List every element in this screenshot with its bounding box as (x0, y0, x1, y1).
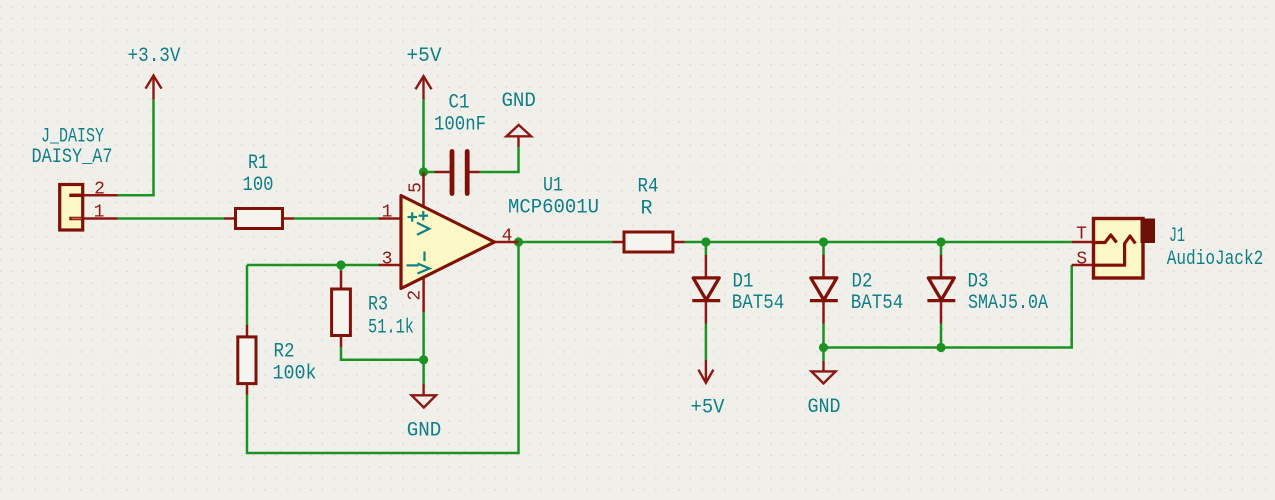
wire: R1 to op-amp pin1 (294, 217, 379, 220)
junction op-amp output (514, 237, 523, 246)
power +5V symbol top (416, 76, 432, 99)
op-amp minus input marker (407, 264, 419, 266)
svg-text:R1: R1 (248, 152, 268, 175)
svg-text:5: 5 (407, 182, 427, 193)
svg-text:GND: GND (407, 420, 442, 443)
svg-text:D1: D1 (733, 271, 754, 294)
svg-text:T: T (1076, 225, 1087, 245)
ground symbol below D2 (811, 361, 835, 383)
svg-text:AudioJack2: AudioJack2 (1167, 248, 1264, 271)
svg-text:C1: C1 (449, 92, 470, 115)
wire: R2 top to op-amp pin3 (247, 264, 379, 267)
resistor R3 (332, 271, 351, 347)
wire: node to D1 top (705, 242, 708, 255)
op-amp V+ label rotated (417, 211, 429, 235)
wire: output to R4 (519, 241, 613, 244)
resistor R1 (224, 209, 294, 229)
resistor R4 (613, 232, 685, 252)
audio jack J1 pin S stub (1072, 264, 1094, 267)
svg-text:R3: R3 (368, 294, 388, 317)
diode D3 (927, 255, 955, 324)
op-amp V- label rotated (418, 252, 430, 274)
wire: R4 to audio jack T (685, 241, 1072, 244)
wire: +5V to op-amp pin5 (422, 99, 425, 172)
junction R3 top (336, 260, 345, 269)
wire: pin1 of J_DAISY to R1 (118, 217, 225, 220)
svg-text:R2: R2 (274, 341, 295, 364)
junction C1/+5V (419, 167, 428, 176)
op-amp U1 pins (379, 172, 519, 312)
junction D2 top (819, 237, 828, 246)
diode D2 (810, 255, 838, 324)
svg-text:SMAJ5.0A: SMAJ5.0A (968, 292, 1048, 315)
junction D2 bottom (819, 343, 828, 352)
svg-text:DAISY_A7: DAISY_A7 (32, 146, 113, 169)
svg-text:BAT54: BAT54 (851, 292, 904, 315)
op-amp U1 body (401, 196, 495, 289)
wire: R3 bottom to pin2 node (341, 347, 424, 360)
ground symbol near C1 (506, 125, 531, 147)
wire: node to D2 top (822, 242, 825, 255)
wire: D2 bottom to node (822, 324, 825, 362)
ground symbol below op-amp (412, 384, 436, 408)
svg-text:100: 100 (243, 174, 274, 197)
svg-text:+5V: +5V (691, 397, 725, 420)
svg-text:4: 4 (502, 227, 513, 247)
wire: bottom rail D2/D3 to audio jack S (824, 265, 1072, 348)
svg-text:+3.3V: +3.3V (128, 45, 181, 68)
svg-text:GND: GND (808, 396, 841, 419)
wire: C1 right to GND (480, 147, 519, 172)
svg-text:R4: R4 (638, 176, 659, 199)
wire: feedback loop output to R2 bottom (247, 242, 519, 453)
svg-text:D2: D2 (852, 271, 873, 294)
junction D3 top (936, 237, 945, 246)
wire: R2 top vertical (246, 265, 249, 325)
audio jack J1 pin T stub (1072, 241, 1094, 244)
svg-text:2: 2 (94, 180, 105, 200)
junction pin2/R3/GND (419, 355, 428, 364)
svg-text:J1: J1 (1169, 225, 1185, 248)
svg-text:100k: 100k (273, 363, 317, 386)
resistor R2 (238, 325, 256, 395)
svg-text:S: S (1076, 250, 1087, 270)
wire: D3 bottom to node (940, 324, 943, 348)
svg-text:R: R (640, 198, 652, 221)
connector J_DAISY pin 1 stub (83, 217, 118, 220)
svg-text:GND: GND (501, 90, 536, 113)
svg-text:51.1k: 51.1k (368, 317, 414, 340)
svg-text:D3: D3 (968, 271, 989, 294)
svg-text:100nF: 100nF (434, 114, 486, 137)
wire: op-amp pin2 down to node (422, 312, 425, 360)
connector J_DAISY pin 2 stub (83, 194, 118, 197)
svg-text:BAT54: BAT54 (732, 292, 785, 315)
svg-text:3: 3 (382, 250, 393, 270)
capacitor C1 (435, 152, 480, 194)
wire: junction to C1 left (424, 171, 435, 174)
connector J_DAISY body (60, 185, 83, 231)
audio jack J1 body (1094, 219, 1156, 279)
power +5V symbol down at D1 (698, 360, 713, 383)
junction D1 top (701, 237, 710, 246)
wire: node to GND stub (422, 360, 425, 384)
power +3.3V symbol (146, 76, 162, 100)
junction D3 bottom (936, 343, 945, 352)
diode D1 (692, 255, 720, 324)
wire: node to D3 top (940, 242, 943, 255)
op-amp plus input marker (408, 212, 418, 221)
wire: D1 bottom to +5V arrow (705, 324, 708, 361)
wire: pin2 of J_DAISY to +3.3V (118, 99, 154, 195)
svg-text:MCP6001U: MCP6001U (508, 197, 599, 220)
svg-text:U1: U1 (543, 175, 563, 198)
wire: node to R3 top (340, 265, 343, 272)
svg-text:+5V: +5V (407, 45, 442, 68)
svg-text:1: 1 (382, 203, 393, 223)
svg-text:1: 1 (94, 203, 105, 223)
svg-text:2: 2 (406, 290, 426, 301)
